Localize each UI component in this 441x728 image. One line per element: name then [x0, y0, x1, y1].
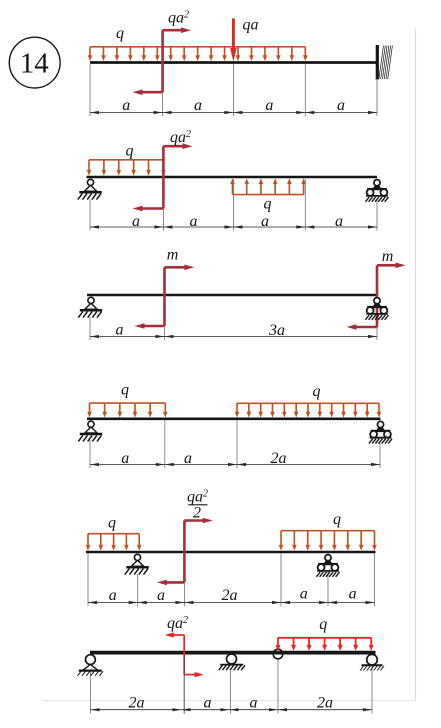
svg-text:a: a — [184, 450, 192, 467]
svg-text:a: a — [194, 97, 202, 114]
svg-text:a: a — [250, 695, 258, 712]
svg-text:a: a — [190, 213, 198, 230]
svg-text:q: q — [108, 515, 116, 532]
svg-text:2a: 2a — [129, 695, 145, 712]
svg-text:a: a — [122, 97, 130, 114]
svg-text:a: a — [337, 97, 345, 114]
svg-text:a: a — [300, 586, 308, 603]
svg-text:a: a — [109, 587, 117, 604]
svg-text:qa: qa — [243, 17, 259, 34]
svg-text:3a: 3a — [268, 322, 285, 339]
svg-text:q: q — [121, 382, 129, 399]
svg-text:2a: 2a — [271, 450, 287, 467]
svg-text:q: q — [116, 25, 124, 42]
svg-text:q: q — [264, 196, 272, 213]
svg-text:a: a — [335, 213, 343, 230]
svg-text:a: a — [261, 213, 269, 230]
svg-text:q: q — [126, 143, 134, 160]
svg-text:14: 14 — [20, 48, 50, 80]
svg-text:m: m — [167, 247, 179, 264]
svg-text:a: a — [157, 587, 165, 604]
svg-text:a: a — [121, 450, 129, 467]
svg-text:q: q — [333, 511, 341, 528]
svg-text:m: m — [382, 248, 394, 265]
svg-text:q: q — [319, 616, 327, 633]
svg-text:2a: 2a — [222, 587, 238, 604]
svg-text:a: a — [265, 97, 273, 114]
svg-text:a: a — [116, 322, 124, 339]
svg-text:q: q — [313, 383, 321, 400]
svg-text:2a: 2a — [317, 695, 333, 712]
svg-text:2: 2 — [193, 505, 201, 522]
svg-text:a: a — [349, 586, 357, 603]
svg-text:a: a — [132, 213, 140, 230]
svg-text:a: a — [204, 695, 212, 712]
